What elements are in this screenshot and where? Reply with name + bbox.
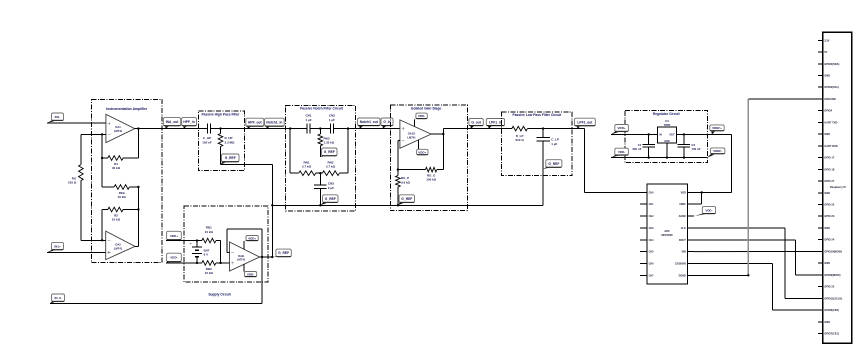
node G_REF (gain stage, callout) (398, 195, 415, 206)
resistor RG 510 ohm (68, 134, 83, 240)
svg-text:G_out: G_out (471, 120, 481, 124)
svg-text:2.7 kΩ: 2.7 kΩ (326, 165, 336, 169)
title Supply Circuit (208, 292, 231, 296)
wire feedback right vertical (442, 134, 444, 170)
wire regulator ground rail (611, 157, 707, 159)
junction OA1G output (442, 133, 444, 135)
junction VDD/VREF tie (701, 191, 703, 193)
svg-text:R_LP: R_LP (516, 134, 524, 138)
svg-text:CH3: CH3 (649, 227, 655, 230)
svg-text:C2: C2 (691, 143, 695, 147)
svg-text:IN: IN (659, 134, 662, 137)
dashed box: Passive High Pass Filter (199, 111, 245, 171)
capacitor C1 330 nF (632, 134, 655, 157)
svg-text:3.3 MΩ: 3.3 MΩ (225, 140, 236, 144)
svg-text:CH5: CH5 (649, 251, 655, 254)
svg-text:DIN: DIN (682, 251, 686, 254)
svg-text:VDD: VDD (681, 191, 686, 194)
svg-text:3.9 kΩ: 3.9 kΩ (401, 180, 411, 184)
node VDD- (supply, callout) (166, 253, 181, 263)
capacitor CN3 2 uF (314, 173, 334, 205)
svg-text:10 kΩ: 10 kΩ (205, 230, 214, 234)
junction divider mid (219, 262, 221, 264)
svg-text:2.7 kΩ: 2.7 kΩ (302, 165, 312, 169)
wire OA1 -in (81, 133, 106, 135)
resistor R1B 10 kohm (102, 185, 138, 199)
node VDD- (ADC AGND, callout) (695, 207, 716, 217)
node Notch1_in (callout) (265, 118, 285, 128)
svg-text:G_REF: G_REF (401, 197, 412, 201)
junction notch lower-left tap (289, 127, 291, 129)
svg-text:VDD+: VDD+ (618, 126, 626, 130)
node LPF1_in (callout) (486, 119, 504, 129)
junction G_REF bus at HPF drop (271, 204, 273, 206)
svg-text:G_REF: G_REF (324, 150, 335, 154)
node HPF_in (callout) (182, 118, 197, 129)
dashed box: Regulator Circuit (625, 111, 708, 163)
svg-text:VDD-: VDD- (705, 208, 712, 212)
node G_out (callout) (469, 119, 483, 129)
svg-text:LPF1_in: LPF1_in (489, 120, 502, 124)
wire regulator input rail (611, 133, 658, 135)
op-amp OA1 LM741 (106, 114, 135, 142)
resistor R1 40 kohm (102, 156, 138, 170)
junction R1 feedback tap on output (137, 127, 139, 129)
ADC U2 MCP3008 (640, 184, 694, 284)
svg-text:MCP3008: MCP3008 (661, 234, 673, 237)
resistor RN2 2.7 kohm (322, 160, 348, 175)
resistor RG_P 3.9 kohm (396, 170, 411, 206)
wire RB1 to bottom rail (220, 241, 222, 263)
wire ground bus (gray) (747, 99, 749, 275)
title Regulator Circuit (653, 112, 681, 116)
svg-text:VREF-: VREF- (713, 149, 722, 153)
svg-text:DGND: DGND (679, 274, 686, 277)
junction G_REF at supply (271, 256, 273, 258)
svg-text:CN1: CN1 (305, 114, 311, 118)
svg-text:RB1: RB1 (206, 226, 212, 230)
wire OA2 output (135, 245, 138, 247)
svg-text:VDD-: VDD- (618, 150, 625, 154)
pin V- of OA1G (413, 119, 415, 126)
capacitor C2 100 nF (678, 134, 701, 157)
resistor RN1 2.7 kohm (290, 160, 322, 175)
wire CN1 to CN2 (310, 128, 331, 130)
wire CN2 to gain stage (333, 128, 400, 130)
svg-text:VDD-: VDD- (170, 256, 177, 260)
wire OAB output (260, 256, 273, 258)
svg-text:RN1: RN1 (303, 160, 309, 164)
svg-text:AGND: AGND (679, 215, 686, 218)
node VDD+ (regulator, callout) (611, 125, 628, 135)
svg-text:VDD-: VDD- (247, 272, 254, 276)
node IN1- (callout) (47, 113, 64, 123)
svg-text:G_REF: G_REF (325, 197, 336, 201)
wire OAB output down (261, 229, 263, 304)
junction U1 GND on rail (666, 156, 668, 158)
pin V- of OAB (243, 264, 245, 271)
svg-text:Isolated Gain Stage: Isolated Gain Stage (411, 107, 442, 111)
node G_REF (RN3, callout) (320, 148, 337, 157)
wire LPF output to ADC CH0 (572, 129, 640, 193)
svg-text:CLK: CLK (681, 227, 686, 230)
svg-text:10 kΩ: 10 kΩ (205, 271, 214, 275)
junction G_REF bus at RG_P (397, 204, 399, 206)
wire IN1- to OA1 +in (47, 122, 106, 124)
wire gain output to LPF (443, 128, 501, 130)
svg-text:CH1: CH1 (649, 203, 655, 206)
dashed box: Supply Circuit (184, 206, 268, 282)
node VDD+ (gain stage bottom, callout) (417, 149, 428, 155)
svg-text:G_in: G_in (383, 120, 390, 124)
junction C1 bottom (648, 156, 650, 158)
svg-text:2 µF: 2 µF (328, 186, 334, 190)
junction notch lower-right tap (347, 127, 349, 129)
svg-text:G_REF: G_REF (278, 251, 289, 255)
svg-text:RG: RG (72, 176, 77, 180)
svg-text:40 kΩ: 40 kΩ (112, 166, 121, 170)
svg-text:ADC: ADC (664, 230, 670, 233)
svg-text:10 kΩ: 10 kΩ (118, 195, 127, 199)
node VDD+ (OAB, callout) (244, 236, 258, 242)
wire notch lower-left vertical (289, 129, 291, 174)
svg-text:IN_G: IN_G (54, 296, 62, 300)
pin GND of U1 (666, 143, 668, 157)
svg-text:HPF_in: HPF_in (183, 120, 194, 124)
connector J1 Raspberry Pi header (818, 32, 852, 343)
resistor RG_G 100 kohm (398, 167, 443, 181)
svg-text:9 V: 9 V (204, 253, 208, 257)
node G_REF (LPF, callout) (543, 160, 562, 169)
pin V+ of OAB (243, 241, 245, 249)
wire R2 left to OA2 -in (101, 210, 103, 241)
voltage regulator U1 7805 (658, 119, 677, 143)
wire OA1G -in down (397, 141, 399, 170)
junction C_LP top (542, 127, 544, 129)
svg-text:Passive Low Pass Filter Circui: Passive Low Pass Filter Circuit (513, 113, 563, 117)
wire CLK to GPIO11 SCLK (694, 228, 818, 299)
title Isolated Gain Stage (411, 107, 442, 111)
node VDD- (regulator, callout) (611, 148, 628, 157)
svg-text:1 µF: 1 µF (329, 118, 335, 122)
node VDD- (OAB, callout) (244, 272, 257, 277)
dashed box: Instrumentation Amplifier (91, 99, 162, 262)
svg-text:Passive Notch Filter Circuit: Passive Notch Filter Circuit (300, 107, 344, 111)
junction RN3 top (319, 127, 321, 129)
junction R_HP top (219, 127, 221, 129)
node G_REF (supply output, callout) (272, 249, 291, 257)
wire output jog up (442, 129, 444, 135)
node LPF1_out (callout) (575, 118, 596, 128)
svg-text:BAT: BAT (204, 249, 210, 253)
svg-text:100 nF: 100 nF (691, 147, 700, 151)
svg-text:CH7: CH7 (649, 274, 655, 277)
svg-text:C_HP: C_HP (203, 136, 211, 140)
wire R1 left vertical (101, 134, 103, 187)
capacitor C_HP 100 nF (202, 124, 212, 145)
svg-text:CH4: CH4 (649, 239, 655, 242)
node IN_G (callout) (50, 294, 65, 304)
svg-text:G_REF: G_REF (225, 156, 236, 160)
wire OA1 output to C_HP (135, 128, 208, 130)
svg-text:VDD+: VDD+ (248, 236, 256, 240)
node VREF- (callout) (707, 148, 725, 158)
resistor R_HP 3.3 Mohm (218, 129, 235, 165)
dashed box: Passive Notch Filter Circuit (286, 105, 356, 211)
capacitor CN1 1 uF (305, 114, 311, 134)
dashed box: Isolated Gain Stage (390, 105, 467, 211)
svg-text:VDD+: VDD+ (170, 234, 178, 238)
junction C2 bottom (683, 156, 685, 158)
node IN1+ (callout) (47, 242, 64, 252)
svg-text:GND: GND (664, 140, 670, 143)
wire VDD- rail (166, 262, 202, 264)
svg-text:C1: C1 (638, 143, 642, 147)
title Passive Notch Filter Circuit (300, 107, 344, 111)
svg-text:Passive High Pass Filter: Passive High Pass Filter (201, 112, 240, 116)
svg-text:Notch1_out: Notch1_out (360, 120, 379, 124)
svg-text:VDD+: VDD+ (418, 150, 426, 154)
junction battery top (196, 239, 198, 241)
junction G_REF bus at CN3 (319, 204, 321, 206)
svg-text:RG_G: RG_G (427, 174, 436, 178)
svg-text:Regulator Circuit: Regulator Circuit (653, 112, 681, 116)
op-amp OAB LM741 (230, 242, 260, 271)
wire CS to GPIO8 CE0 (694, 264, 818, 311)
junction CN3 top (319, 172, 321, 174)
junction OAB output (261, 256, 263, 258)
junction R2 right (137, 208, 139, 210)
svg-text:CN3: CN3 (328, 182, 334, 186)
svg-text:VREF: VREF (679, 203, 686, 206)
dashed box: Passive Low Pass Filter Circuit (502, 112, 573, 176)
svg-text:100 nF: 100 nF (202, 140, 212, 144)
svg-text:IN1-: IN1- (55, 115, 61, 119)
resistor R2 10 kohm (102, 207, 138, 221)
wire VREF branch to ADC VREF (694, 192, 702, 204)
svg-text:IN1+: IN1+ (54, 244, 61, 248)
svg-text:1.33 kΩ: 1.33 kΩ (324, 141, 335, 145)
junction feedback left (397, 168, 399, 170)
battery BAT 9 V (189, 241, 209, 263)
svg-text:OUT: OUT (670, 134, 676, 137)
resistor RB1 10 kohm (202, 226, 221, 243)
resistor RB2 10 kohm (202, 261, 230, 276)
wire VREF+ to ADC VDD (694, 134, 732, 192)
wire OA1G output (431, 133, 443, 135)
svg-text:10 kΩ: 10 kΩ (112, 218, 121, 222)
svg-text:7805: 7805 (664, 123, 671, 127)
junction R1 left (101, 157, 103, 159)
svg-text:330 nF: 330 nF (632, 147, 641, 151)
junction C1 top (648, 133, 650, 135)
svg-text:RN2: RN2 (327, 160, 333, 164)
svg-text:R2: R2 (114, 213, 118, 217)
svg-text:RG_P: RG_P (401, 176, 409, 180)
wire C_HP to CN1 (211, 128, 308, 130)
op-amp OA1G LM741 (400, 120, 431, 148)
svg-text:RB2: RB2 (206, 267, 212, 271)
capacitor CN2 1 uF (329, 114, 335, 134)
svg-text:G_REF: G_REF (548, 162, 559, 166)
svg-text:RN3: RN3 (324, 136, 330, 140)
svg-text:U1: U1 (665, 119, 669, 123)
svg-text:DOUT: DOUT (679, 239, 686, 242)
node VREF+ (callout) (710, 125, 724, 134)
node G_REF (CN3, callout) (320, 195, 338, 206)
wire DGND to ground bus (694, 274, 748, 276)
svg-text:1 µF: 1 µF (305, 118, 311, 122)
junction OA1 -in / R1 tap (101, 133, 103, 135)
svg-text:CN2: CN2 (329, 114, 335, 118)
junction C2 top (683, 133, 685, 135)
wire IN_G to supply output (50, 303, 262, 305)
node HPF_out (callout) (246, 118, 264, 128)
wire VDD+ rail (166, 240, 202, 242)
junction R1B right (137, 186, 139, 188)
title Passive Low Pass Filter Circuit (513, 113, 563, 117)
wire DIN to GPIO10 MOSI (694, 251, 818, 253)
wire R1B to OA2 output vertical (137, 187, 139, 246)
svg-text:C_LP: C_LP (551, 138, 559, 142)
wire R_HP bottom to G_REF net (221, 164, 273, 166)
node VDD+ (supply, callout) (166, 231, 181, 240)
resistor RN3 1.33 kohm (318, 129, 335, 157)
wire regulator output rail (676, 133, 731, 135)
pin V+ of OA1G (418, 140, 420, 150)
node INA_out (callout) (163, 118, 180, 129)
wire notch lower-right vertical (347, 129, 349, 174)
svg-text:VDD-: VDD- (418, 114, 425, 118)
node G_REF (HPF, callout) (221, 154, 240, 165)
svg-text:R1B: R1B (119, 191, 126, 195)
svg-text:510 Ω: 510 Ω (68, 181, 77, 185)
junction battery bottom (196, 262, 198, 264)
title Passive High Pass Filter (201, 112, 240, 116)
svg-text:910 Ω: 910 Ω (515, 138, 524, 142)
svg-text:CH2: CH2 (649, 215, 655, 218)
title Instrumentation Amplifier (106, 107, 148, 111)
svg-text:CH0: CH0 (649, 191, 655, 194)
junction R2 left on OA2 -in (101, 239, 103, 241)
wire IN1+ to OA2 +in (47, 252, 106, 254)
svg-text:Instrumentation Amplifier: Instrumentation Amplifier (106, 107, 148, 111)
wire OA1G -in (398, 140, 400, 142)
svg-text:LPF1_out: LPF1_out (577, 120, 593, 124)
wire ground bus to GROUND pin (748, 98, 818, 100)
svg-text:CS/SHDN: CS/SHDN (675, 263, 686, 266)
svg-text:R1: R1 (114, 162, 118, 166)
svg-text:VREF+: VREF+ (712, 126, 722, 130)
svg-text:1 µF: 1 µF (551, 142, 557, 146)
svg-text:INA_out: INA_out (166, 120, 180, 124)
op-amp OA2 LM741 (106, 231, 135, 260)
node VDD- (gain stage top, callout) (414, 113, 427, 119)
svg-text:HPF_out: HPF_out (248, 120, 262, 124)
svg-text:CH6: CH6 (649, 263, 655, 266)
wire G_REF bus horizontal (272, 204, 543, 206)
svg-text:R_HP: R_HP (225, 136, 233, 140)
svg-text:100 kΩ: 100 kΩ (426, 178, 437, 182)
wire R1 feedback vertical (137, 129, 139, 158)
svg-text:Supply Circuit: Supply Circuit (208, 292, 231, 296)
wire DOUT to GPIO9 MISO (694, 240, 818, 275)
node Notch1_out (callout) (358, 118, 380, 129)
svg-text:Notch1_in: Notch1_in (266, 120, 282, 124)
wire OA2 -in (81, 239, 106, 241)
junction DGND on ground bus (747, 274, 749, 276)
capacitor C_LP 1 uF (536, 129, 559, 206)
wire OAB feedback (227, 229, 262, 252)
wire G_REF vertical to supply (271, 165, 273, 257)
node G_in (callout) (381, 118, 393, 129)
resistor R_LP 910 ohm (502, 126, 573, 142)
